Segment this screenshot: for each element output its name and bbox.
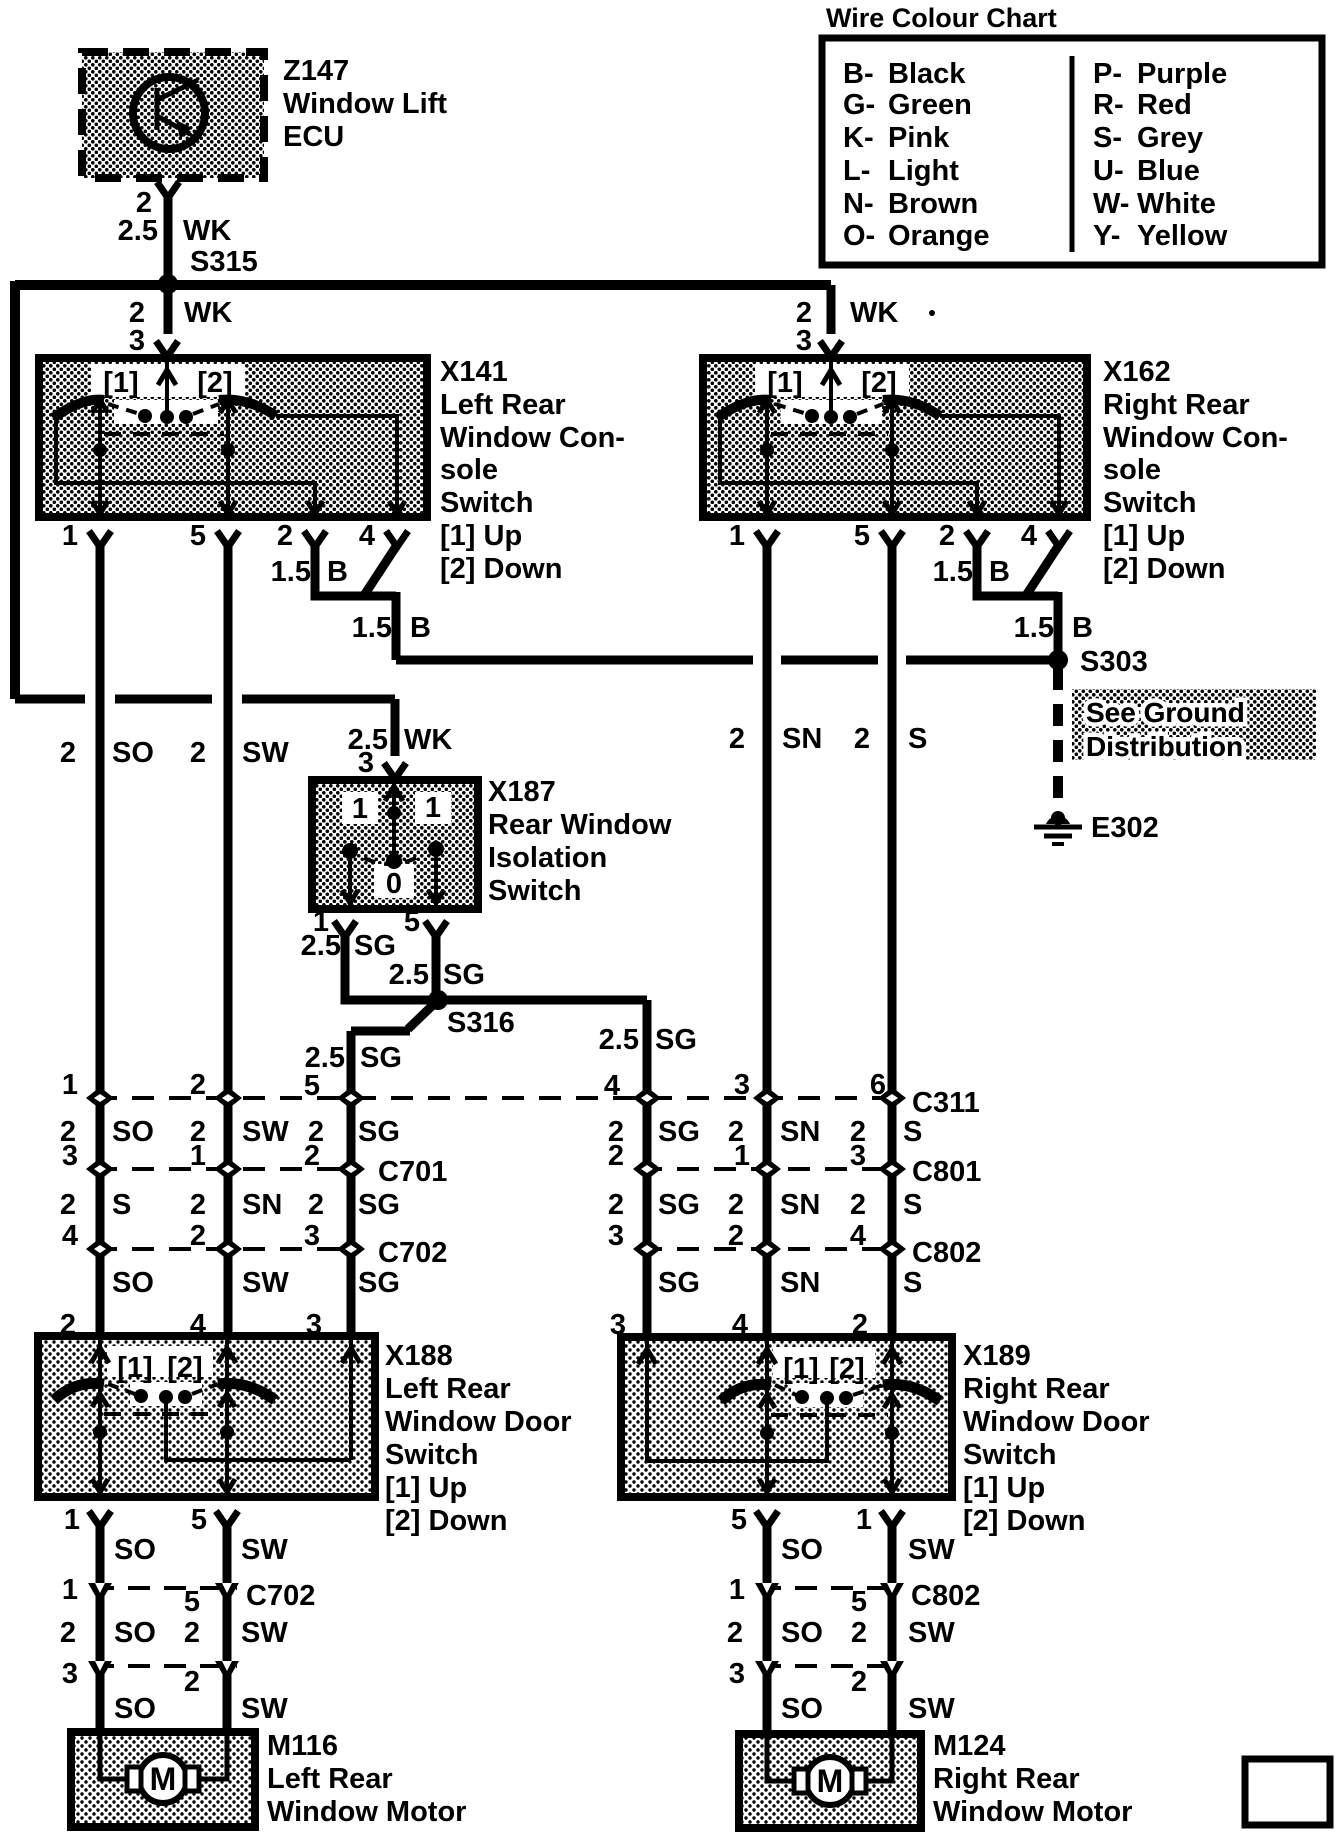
svg-text:5: 5	[731, 1504, 747, 1536]
svg-text:Left Rear: Left Rear	[440, 389, 566, 421]
svg-text:Switch: Switch	[488, 875, 581, 907]
wire 2.5 SG X187-1 to S316	[301, 930, 432, 1000]
svg-text:SG: SG	[658, 1116, 700, 1148]
svg-text:2: 2	[60, 737, 76, 769]
svg-text:S: S	[903, 1267, 922, 1299]
svg-text:Pink: Pink	[888, 122, 950, 154]
svg-text:W-: W-	[1093, 188, 1129, 220]
X187 input connector pin 3	[384, 763, 406, 779]
X141 labels	[103, 356, 625, 585]
svg-text:SO: SO	[112, 1116, 154, 1148]
svg-text:4: 4	[850, 1220, 866, 1252]
Z147 pin 2 connector	[136, 182, 179, 219]
motor connector row right	[729, 1658, 904, 1698]
wire 1.5 B X162 pin4 diagonal	[1014, 545, 1093, 653]
svg-text:S315: S315	[190, 246, 258, 278]
svg-text:2.5: 2.5	[118, 215, 158, 247]
svg-text:SG: SG	[358, 1267, 400, 1299]
dashed wire S303 to E302	[1053, 668, 1063, 806]
svg-text:SG: SG	[658, 1189, 700, 1221]
X189 pin connectors 5 1	[731, 1504, 903, 1536]
svg-text:1: 1	[352, 793, 368, 825]
wire SN X162-1 down	[763, 545, 772, 1337]
svg-text:4: 4	[62, 1220, 78, 1252]
svg-text:1: 1	[729, 520, 745, 552]
svg-text:2: 2	[851, 1666, 867, 1698]
gauge labels row below C702/C802	[112, 1267, 922, 1299]
svg-text:Orange: Orange	[888, 220, 990, 252]
svg-text:3: 3	[850, 1140, 866, 1172]
svg-text:SN: SN	[780, 1189, 820, 1221]
svg-text:[2] Down: [2] Down	[963, 1505, 1085, 1537]
svg-text:Left Rear: Left Rear	[267, 1763, 393, 1795]
svg-text:S-: S-	[1093, 122, 1122, 154]
svg-text:SW: SW	[908, 1693, 955, 1725]
wire S X162-5 down	[888, 545, 897, 1337]
switch X162 Right Rear Window Console Switch	[703, 358, 1087, 517]
right WK drop to X162	[796, 285, 935, 357]
svg-text:SW: SW	[241, 1693, 288, 1725]
X187 pin connectors 1 5	[313, 906, 447, 938]
svg-text:P-: P-	[1093, 58, 1122, 90]
svg-text:X187: X187	[488, 776, 556, 808]
wire gauge labels row SO SW SN S	[60, 723, 927, 769]
svg-text:C702: C702	[378, 1237, 447, 1269]
svg-text:2: 2	[608, 1140, 624, 1172]
svg-text:[1] Up: [1] Up	[1103, 520, 1185, 552]
svg-text:2: 2	[850, 1189, 866, 1221]
svg-text:WK: WK	[184, 297, 232, 329]
svg-text:Grey: Grey	[1137, 122, 1203, 154]
svg-text:SG: SG	[360, 1042, 402, 1074]
svg-text:[2]: [2]	[829, 1353, 864, 1385]
svg-text:C802: C802	[911, 1580, 980, 1612]
svg-text:sole: sole	[1103, 454, 1161, 486]
svg-text:Switch: Switch	[963, 1439, 1056, 1471]
svg-text:3: 3	[304, 1220, 320, 1252]
svg-text:E302: E302	[1091, 812, 1159, 844]
svg-text:[1] Up: [1] Up	[963, 1472, 1045, 1504]
gauge labels SO SW above M124	[781, 1693, 955, 1725]
svg-text:5: 5	[184, 1586, 200, 1618]
page marker box	[1245, 1759, 1330, 1825]
svg-text:M124: M124	[933, 1730, 1006, 1762]
wire 2.5 SG X187-5 to S316	[389, 935, 485, 1000]
svg-text:SW: SW	[242, 737, 289, 769]
splice S316	[428, 990, 515, 1039]
svg-text:[2]: [2]	[167, 1352, 202, 1384]
ground E302	[1034, 811, 1159, 844]
svg-text:SO: SO	[114, 1617, 156, 1649]
svg-text:[2] Down: [2] Down	[385, 1505, 507, 1537]
svg-text:2: 2	[728, 1220, 744, 1252]
svg-text:3: 3	[358, 747, 374, 779]
svg-text:Window Motor: Window Motor	[267, 1796, 466, 1828]
svg-text:B: B	[410, 612, 431, 644]
splice S303	[1048, 646, 1148, 678]
label 2 3 WK left	[129, 297, 233, 357]
svg-text:2: 2	[184, 1617, 200, 1649]
svg-text:X189: X189	[963, 1340, 1031, 1372]
svg-text:X162: X162	[1103, 356, 1171, 388]
svg-text:SO: SO	[112, 1267, 154, 1299]
svg-text:SW: SW	[242, 1267, 289, 1299]
svg-text:[2]: [2]	[861, 367, 896, 399]
svg-text:2: 2	[729, 723, 745, 755]
X162 labels	[767, 356, 1288, 585]
svg-text:2: 2	[190, 1220, 206, 1252]
svg-text:Distribution: Distribution	[1086, 731, 1243, 762]
switch X187 Rear Window Isolation Switch	[312, 776, 672, 909]
svg-text:Right Rear: Right Rear	[933, 1763, 1080, 1795]
svg-text:0: 0	[386, 868, 402, 900]
svg-text:Switch: Switch	[440, 487, 533, 519]
svg-text:S: S	[908, 723, 927, 755]
svg-text:Switch: Switch	[385, 1439, 478, 1471]
svg-text:SW: SW	[241, 1617, 288, 1649]
gauge labels row below C311	[60, 1116, 922, 1148]
svg-text:C802: C802	[912, 1237, 981, 1269]
svg-text:N-: N-	[843, 188, 874, 220]
svg-text:sole: sole	[440, 454, 498, 486]
svg-text:[1]: [1]	[783, 1353, 818, 1385]
motor M124 Right Rear Window Motor	[739, 1730, 1132, 1828]
svg-text:Window Door: Window Door	[963, 1406, 1150, 1438]
connector C802	[608, 1220, 981, 1269]
svg-text:O-: O-	[843, 220, 875, 252]
svg-text:2: 2	[190, 737, 206, 769]
svg-text:3: 3	[729, 1658, 745, 1690]
ground bus wire B to S303	[396, 656, 1058, 665]
svg-text:Window Con-: Window Con-	[1103, 422, 1288, 454]
svg-text:2: 2	[304, 1140, 320, 1172]
svg-text:[1]: [1]	[767, 367, 802, 399]
svg-text:Window Lift: Window Lift	[283, 88, 447, 120]
X162 pin connectors 1 5 2 4	[729, 520, 1070, 552]
svg-text:SG: SG	[655, 1024, 697, 1056]
label 2.5 WK 3 at X187 input	[348, 724, 453, 779]
svg-text:Isolation: Isolation	[488, 842, 607, 874]
svg-text:S: S	[903, 1189, 922, 1221]
svg-text:6: 6	[870, 1069, 886, 1101]
svg-text:U-: U-	[1093, 155, 1124, 187]
svg-text:M: M	[150, 1761, 177, 1797]
svg-text:1: 1	[190, 1140, 206, 1172]
svg-text:SO: SO	[112, 737, 154, 769]
svg-text:2: 2	[608, 1189, 624, 1221]
svg-text:2: 2	[854, 723, 870, 755]
see ground distribution note	[1072, 689, 1316, 762]
svg-text:SO: SO	[781, 1617, 823, 1649]
gauge labels row below C701/C801	[60, 1189, 922, 1221]
X141 pin connectors 1 5 2 4	[62, 520, 408, 552]
svg-text:SW: SW	[241, 1534, 288, 1566]
svg-text:L-: L-	[843, 155, 870, 187]
svg-text:5: 5	[304, 1070, 320, 1102]
svg-text:2: 2	[60, 1617, 76, 1649]
svg-text:2: 2	[190, 1189, 206, 1221]
svg-text:5: 5	[404, 906, 420, 938]
svg-text:Right Rear: Right Rear	[963, 1373, 1110, 1405]
svg-text:SN: SN	[242, 1189, 282, 1221]
svg-text:Green: Green	[888, 89, 972, 121]
svg-text:C702: C702	[246, 1580, 315, 1612]
svg-text:S: S	[112, 1189, 131, 1221]
svg-text:SG: SG	[658, 1267, 700, 1299]
motor M116 Left Rear Window Motor	[71, 1730, 466, 1828]
switch X189 Right Rear Window Door Switch	[621, 1337, 952, 1497]
svg-text:SW: SW	[242, 1116, 289, 1148]
svg-text:3: 3	[129, 325, 145, 357]
svg-text:Black: Black	[888, 58, 966, 90]
splice S315	[158, 246, 258, 294]
svg-text:1: 1	[62, 1069, 78, 1101]
connector C702	[62, 1220, 447, 1269]
svg-text:[1] Up: [1] Up	[385, 1472, 467, 1504]
wire SO X141-1 down	[96, 545, 105, 1336]
svg-text:3: 3	[62, 1140, 78, 1172]
svg-text:S303: S303	[1080, 646, 1148, 678]
svg-text:5: 5	[851, 1586, 867, 1618]
svg-text:ECU: ECU	[283, 121, 344, 153]
connector C802 door side	[729, 1574, 980, 1618]
svg-text:X141: X141	[440, 356, 508, 388]
wire 1.5 B X141 pin4 diagonal	[352, 545, 431, 660]
svg-text:[2] Down: [2] Down	[440, 553, 562, 585]
svg-text:SN: SN	[782, 723, 822, 755]
svg-text:1: 1	[64, 1504, 80, 1536]
svg-text:Y-: Y-	[1093, 220, 1120, 252]
X188 pin connectors 1 5	[64, 1504, 238, 1536]
svg-text:1: 1	[62, 520, 78, 552]
left WK drop wire	[10, 281, 20, 699]
svg-text:WK: WK	[850, 297, 898, 329]
svg-text:3: 3	[734, 1069, 750, 1101]
svg-text:2: 2	[939, 520, 955, 552]
svg-text:Z147: Z147	[283, 55, 349, 87]
wire SW X189-1 to M124	[862, 1525, 955, 1781]
svg-text:2: 2	[728, 1189, 744, 1221]
svg-text:1: 1	[729, 1574, 745, 1606]
connector C702 door side	[62, 1574, 315, 1618]
wire 2.5 SG S316 right branch to C311-4	[438, 1000, 697, 1337]
svg-text:SG: SG	[443, 959, 485, 991]
svg-text:See Ground: See Ground	[1086, 697, 1245, 728]
svg-text:C701: C701	[378, 1156, 447, 1188]
svg-text:Red: Red	[1137, 89, 1192, 121]
svg-text:Wire Colour Chart: Wire Colour Chart	[826, 3, 1057, 33]
svg-text:2.5: 2.5	[301, 930, 341, 962]
svg-text:2: 2	[184, 1666, 200, 1698]
svg-text:4: 4	[1021, 520, 1037, 552]
wire colour chart	[822, 3, 1322, 265]
svg-text:2: 2	[727, 1617, 743, 1649]
svg-text:1: 1	[734, 1140, 750, 1172]
svg-text:SG: SG	[358, 1116, 400, 1148]
svg-text:SN: SN	[780, 1267, 820, 1299]
svg-text:WK: WK	[183, 215, 231, 247]
svg-text:Window Con-: Window Con-	[440, 422, 625, 454]
wire 1.5 B X162 pin2	[933, 545, 1058, 596]
svg-text:G-: G-	[843, 89, 875, 121]
svg-text:SO: SO	[781, 1534, 823, 1566]
svg-text:B-: B-	[843, 58, 874, 90]
svg-text:2: 2	[60, 1189, 76, 1221]
svg-text:1: 1	[62, 1574, 78, 1606]
svg-text:Yellow: Yellow	[1137, 220, 1228, 252]
connector C801	[608, 1140, 981, 1188]
svg-text:B: B	[989, 556, 1010, 588]
svg-text:SO: SO	[114, 1693, 156, 1725]
svg-text:[1] Up: [1] Up	[440, 520, 522, 552]
wire SO X188-1 to M116	[100, 1525, 156, 1779]
svg-text:2: 2	[308, 1189, 324, 1221]
svg-text:4: 4	[359, 520, 375, 552]
svg-text:SO: SO	[781, 1693, 823, 1725]
X141 input connector pin 2/3	[156, 341, 178, 357]
wire SO X189-5 to M124	[767, 1525, 823, 1781]
svg-text:Right Rear: Right Rear	[1103, 389, 1250, 421]
svg-text:SO: SO	[114, 1534, 156, 1566]
svg-text:2: 2	[277, 520, 293, 552]
svg-text:SG: SG	[358, 1189, 400, 1221]
svg-text:Left Rear: Left Rear	[385, 1373, 511, 1405]
motor connector row left	[62, 1658, 239, 1698]
svg-text:S316: S316	[447, 1007, 515, 1039]
top WK bus wire	[15, 280, 831, 290]
svg-text:X188: X188	[385, 1340, 453, 1372]
svg-text:C801: C801	[912, 1156, 981, 1188]
X162 input connector pin 2/3	[820, 341, 842, 357]
svg-text:3: 3	[62, 1658, 78, 1690]
svg-text:R-: R-	[1093, 89, 1124, 121]
svg-text:4: 4	[604, 1070, 620, 1102]
svg-text:1.5: 1.5	[1014, 612, 1054, 644]
svg-text:[1]: [1]	[103, 367, 138, 399]
svg-text:SW: SW	[908, 1617, 955, 1649]
svg-text:Blue: Blue	[1137, 155, 1200, 187]
connector C701	[62, 1140, 447, 1188]
svg-text:1.5: 1.5	[933, 556, 973, 588]
gauge labels SO SW above M116	[114, 1693, 288, 1725]
switch X188 Left Rear Window Door Switch	[38, 1336, 375, 1497]
wire 1.5 B X141 pin2	[271, 545, 396, 596]
svg-text:M: M	[817, 1763, 844, 1799]
svg-text:2: 2	[190, 1069, 206, 1101]
svg-text:WK: WK	[404, 724, 452, 756]
svg-text:SW: SW	[908, 1534, 955, 1566]
wire SW X188-5 to M116	[197, 1525, 288, 1779]
svg-text:B: B	[1072, 612, 1093, 644]
svg-text:1: 1	[856, 1504, 872, 1536]
svg-text:K-: K-	[843, 122, 874, 154]
svg-text:1.5: 1.5	[271, 556, 311, 588]
wire 2.5 SG S316 left branch to C311-5	[305, 1004, 434, 1336]
gauge labels 2 SO 2 SW door left	[60, 1617, 288, 1649]
lower WK horizontal wire to X187	[15, 699, 395, 756]
svg-text:1.5: 1.5	[352, 612, 392, 644]
connector C311	[62, 1069, 980, 1119]
svg-text:Window Door: Window Door	[385, 1406, 572, 1438]
svg-text:SN: SN	[780, 1116, 820, 1148]
wire 2.5 WK Z147 to S315	[118, 194, 232, 334]
svg-text:M116: M116	[267, 1730, 338, 1762]
svg-text:B: B	[327, 556, 348, 588]
svg-text:S: S	[903, 1116, 922, 1148]
svg-text:2.5: 2.5	[599, 1024, 639, 1056]
svg-text:[1]: [1]	[117, 1352, 152, 1384]
svg-text:[2]: [2]	[197, 367, 232, 399]
svg-text:White: White	[1137, 188, 1216, 220]
svg-text:5: 5	[190, 520, 206, 552]
svg-text:3: 3	[796, 325, 812, 357]
svg-text:2: 2	[851, 1617, 867, 1649]
ECU Z147 Window Lift	[82, 52, 447, 178]
svg-text:Switch: Switch	[1103, 487, 1196, 519]
svg-text:5: 5	[854, 520, 870, 552]
svg-text:Rear Window: Rear Window	[488, 809, 672, 841]
svg-text:2.5: 2.5	[389, 959, 429, 991]
svg-text:Brown: Brown	[888, 188, 978, 220]
svg-text:5: 5	[191, 1504, 207, 1536]
svg-text:Window Motor: Window Motor	[933, 1796, 1132, 1828]
gauge labels 2 SO 2 SW door right	[727, 1617, 955, 1649]
svg-text:Light: Light	[888, 155, 959, 187]
switch X141 Left Rear Window Console Switch	[39, 358, 427, 517]
svg-text:3: 3	[608, 1220, 624, 1252]
svg-text:Purple: Purple	[1137, 58, 1227, 90]
svg-text:1: 1	[425, 792, 441, 824]
X189 labels	[783, 1340, 1149, 1537]
wire SW X141-5 down	[224, 545, 233, 1336]
svg-text:C311: C311	[912, 1087, 980, 1119]
entry pin labels X188 X189	[60, 1309, 868, 1341]
X188 labels	[117, 1340, 571, 1537]
svg-text:[2] Down: [2] Down	[1103, 553, 1225, 585]
svg-text:SG: SG	[354, 930, 396, 962]
